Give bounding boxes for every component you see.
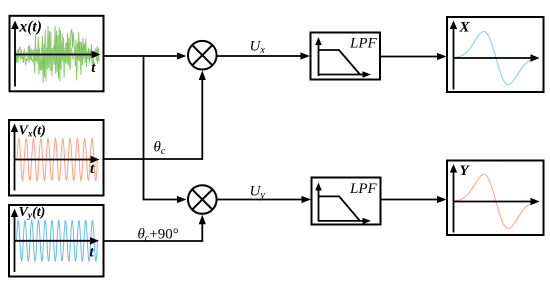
reference signal box Vy(t) [9,205,104,277]
LPF1 vertical axis [318,43,320,76]
Vx(t) time axis [15,159,93,161]
wire theta_c from Vx box to M1 [104,78,203,159]
Y vertical axis [453,171,455,233]
svg-text:LPF: LPF [349,181,378,197]
Y output curve [456,175,532,229]
output box Y [447,161,544,236]
LPF1 horizontal axis [319,74,364,76]
svg-text:X: X [459,20,471,36]
X output curve [456,32,532,85]
Vy(t) time axis [15,240,92,242]
wire box1 to multiplier M1 [105,55,179,57]
output box X [447,17,544,92]
x(t) vertical axis [14,27,16,87]
Vy(t) sine waveform [17,220,98,261]
Vy(t) vertical axis [14,215,16,272]
input signal box x(t) [10,16,104,92]
svg-text:x(t): x(t) [19,18,42,35]
LPF2 response curve [319,196,361,221]
x(t) time axis [15,54,93,56]
svg-text:Vy(t): Vy(t) [19,205,46,221]
LPF1 box [311,33,381,80]
wire branch down from x(t) line [143,55,145,199]
x(t) noise waveform [16,26,99,83]
wire Ux from M1 to LPF1 [217,55,302,57]
multiplier M1 [188,41,217,70]
Y horizontal axis [454,201,533,203]
LPF1 response curve [319,50,361,75]
reference signal box Vx(t) [9,120,104,196]
svg-text:Vx(t): Vx(t) [19,123,46,139]
wire theta_c+90 from Vy box to M2 [104,222,203,241]
X horizontal axis [454,57,533,59]
wire LPF1 to output box X [380,56,438,58]
wire LPF2 to output box Y [381,199,439,201]
svg-text:LPF: LPF [349,35,378,51]
wire branch to multiplier M2 [143,199,179,201]
LPF2 horizontal axis [319,220,364,222]
svg-text:θc+90°: θc+90° [138,227,179,245]
multiplier M2 [188,185,217,214]
LPF2 box [312,178,381,225]
wire Uy from M2 to LPF2 [217,199,303,201]
Vx(t) sine waveform [17,139,98,181]
Vx(t) vertical axis [14,130,16,191]
LPF2 vertical axis [318,189,320,222]
X vertical axis [453,28,455,90]
